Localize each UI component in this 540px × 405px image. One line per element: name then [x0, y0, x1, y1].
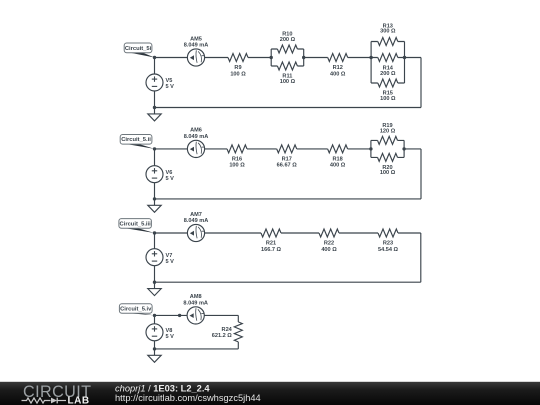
wire parallel box R10/R11	[271, 49, 304, 66]
svg-text:AM8: AM8	[190, 294, 202, 300]
wire	[247, 148, 277, 150]
wire	[420, 233, 422, 282]
node row3 input	[153, 231, 156, 234]
ground	[148, 349, 161, 362]
voltage source V8	[146, 324, 163, 341]
svg-text:100 Ω: 100 Ω	[230, 71, 246, 77]
resistor R14	[378, 54, 398, 62]
wire	[237, 315, 239, 322]
wire	[420, 149, 422, 199]
node row1 input	[153, 56, 156, 59]
label R19 120 Ω	[380, 123, 396, 134]
label AM8 8.049 mA	[183, 294, 208, 306]
wire parallel box R13/R14/R15	[371, 42, 404, 84]
wire	[155, 107, 422, 109]
ammeter AM6	[187, 140, 204, 157]
svg-text:100 Ω: 100 Ω	[280, 79, 296, 85]
net label flag Circuit_5.ii	[120, 135, 154, 149]
svg-text:R18: R18	[332, 156, 342, 162]
label R21 166.7 Ω	[261, 240, 282, 252]
wire	[420, 58, 422, 108]
svg-text:AM7: AM7	[190, 212, 202, 218]
resistor R22	[319, 229, 339, 237]
wire	[205, 232, 261, 234]
resistor R24	[234, 322, 242, 342]
label R23 54.54 Ω	[378, 240, 399, 252]
resistor R11	[277, 62, 297, 70]
wire parallel box R19/R20	[371, 140, 404, 157]
node row4 wire joint	[178, 314, 181, 317]
wire	[248, 57, 271, 59]
node R10/R11 right	[302, 56, 305, 59]
svg-text:5 V: 5 V	[166, 259, 175, 265]
wire	[237, 342, 239, 349]
svg-text:8.049 mA: 8.049 mA	[184, 43, 209, 49]
node row2 ground junction	[153, 197, 156, 200]
svg-text:Circuit_5.ii: Circuit_5.ii	[121, 137, 151, 143]
svg-text:120 Ω: 120 Ω	[380, 128, 396, 134]
label R12 400 Ω	[330, 65, 346, 77]
svg-text:100 Ω: 100 Ω	[380, 170, 396, 176]
svg-text:8.049 mA: 8.049 mA	[184, 218, 209, 224]
svg-text:V5: V5	[166, 78, 173, 84]
node row4 ground junction	[153, 347, 156, 350]
label R22 400 Ω	[321, 240, 337, 252]
wire	[348, 148, 371, 150]
net label flag Circuit_5i	[124, 43, 154, 58]
resistor R23	[378, 229, 398, 237]
svg-text:100 Ω: 100 Ω	[229, 163, 245, 169]
svg-text:66.67 Ω: 66.67 Ω	[277, 163, 298, 169]
label R20 100 Ω	[380, 165, 396, 176]
wire	[154, 266, 156, 283]
svg-text:choprj1 / 1E03: L2_2.4: choprj1 / 1E03: L2_2.4	[115, 383, 210, 393]
node R19/R20 right	[402, 147, 405, 150]
svg-text:400 Ω: 400 Ω	[330, 163, 346, 169]
wire	[405, 57, 422, 59]
svg-text:AM5: AM5	[190, 36, 202, 42]
wire	[304, 57, 328, 59]
label V5 5 V	[166, 78, 175, 90]
svg-text:R22: R22	[324, 240, 334, 246]
ammeter AM7	[187, 224, 204, 241]
svg-text:R23: R23	[383, 240, 393, 246]
label AM7 8.049 mA	[184, 212, 209, 224]
wire	[155, 148, 188, 150]
wire	[154, 341, 156, 349]
wire	[155, 281, 421, 283]
svg-text:400 Ω: 400 Ω	[330, 71, 346, 77]
resistor R10	[277, 45, 297, 53]
net label flag Circuit_5.iv	[119, 304, 154, 316]
label V8 5 V	[166, 328, 175, 340]
label R15 100 Ω	[380, 91, 396, 102]
wire	[281, 232, 319, 234]
node R13-15 right	[403, 56, 406, 59]
wire	[348, 57, 371, 59]
CircuitLab logo resistor squiggle	[22, 398, 51, 403]
voltage source V5	[146, 74, 163, 91]
node R10/R11 left	[270, 56, 273, 59]
resistor R15	[378, 79, 398, 87]
svg-text:5 V: 5 V	[166, 334, 175, 340]
ground	[148, 282, 161, 295]
svg-text:LAB: LAB	[68, 396, 90, 405]
resistor R16	[227, 145, 247, 153]
wire	[154, 91, 156, 108]
resistor R20	[378, 153, 398, 161]
wire	[404, 148, 421, 150]
label R13 300 Ω	[380, 23, 396, 34]
voltage source V7	[146, 249, 163, 266]
wire	[155, 57, 188, 59]
wire	[154, 315, 156, 323]
wire	[398, 232, 421, 234]
wire	[155, 232, 188, 234]
label R24 621.2 Ω	[212, 327, 233, 339]
resistor R9	[228, 54, 248, 62]
svg-text:5 V: 5 V	[166, 176, 175, 182]
label R17 66.67 Ω	[277, 156, 298, 168]
wire	[297, 148, 328, 150]
svg-text:R16: R16	[232, 156, 242, 162]
svg-text:R9: R9	[234, 65, 241, 71]
svg-text:Circuit_5.iii: Circuit_5.iii	[120, 221, 152, 227]
node row2 input	[153, 147, 156, 150]
net label flag Circuit_5.iii	[119, 219, 155, 233]
label R14 200 Ω	[380, 65, 396, 77]
wire	[154, 183, 156, 199]
resistor R18	[328, 145, 348, 153]
wire	[205, 57, 228, 59]
svg-text:400 Ω: 400 Ω	[321, 247, 337, 253]
svg-text:Circuit_5.iv: Circuit_5.iv	[120, 306, 152, 312]
wire	[339, 232, 378, 234]
wire	[154, 58, 156, 75]
ammeter AM5	[187, 49, 204, 66]
wire	[154, 233, 156, 249]
svg-text:V7: V7	[166, 253, 173, 259]
ammeter AM8	[187, 307, 204, 324]
label R11 100 Ω	[280, 74, 296, 85]
resistor R19	[378, 136, 398, 144]
svg-text:R17: R17	[282, 156, 292, 162]
wire	[155, 198, 422, 200]
label V7 5 V	[166, 253, 175, 265]
label R18 400 Ω	[330, 156, 346, 168]
resistor R12	[328, 54, 348, 62]
node R19/R20 left	[369, 147, 372, 150]
svg-text:8.049 mA: 8.049 mA	[183, 300, 208, 306]
node R13-15 left	[369, 56, 372, 59]
ground	[148, 199, 161, 212]
wire	[155, 314, 188, 316]
node row1 ground junction	[153, 106, 156, 109]
svg-text:166.7 Ω: 166.7 Ω	[261, 247, 282, 253]
svg-text:100 Ω: 100 Ω	[380, 96, 396, 102]
label AM6 8.049 mA	[184, 128, 209, 140]
node row3 ground junction	[153, 281, 156, 284]
label R10 200 Ω	[280, 32, 296, 43]
wire	[154, 149, 156, 166]
label V6 5 V	[166, 170, 175, 182]
CircuitLab logo diode	[51, 398, 66, 404]
node row4 input	[153, 314, 156, 317]
svg-text:5 V: 5 V	[166, 84, 175, 90]
resistor R21	[261, 229, 281, 237]
label R16 100 Ω	[229, 156, 245, 168]
svg-text:AM6: AM6	[190, 128, 202, 134]
svg-text:621.2 Ω: 621.2 Ω	[212, 333, 233, 339]
wire	[205, 148, 227, 150]
svg-text:Circuit_5i: Circuit_5i	[125, 46, 152, 52]
ground	[148, 108, 161, 121]
svg-text:V8: V8	[166, 328, 173, 334]
label AM5 8.049 mA	[184, 36, 209, 48]
wire	[204, 314, 238, 316]
svg-text:200 Ω: 200 Ω	[280, 37, 296, 43]
voltage source V6	[146, 166, 163, 183]
svg-text:8.049 mA: 8.049 mA	[184, 134, 209, 140]
resistor R17	[277, 145, 297, 153]
resistor R13	[378, 38, 398, 46]
svg-text:54.54 Ω: 54.54 Ω	[378, 247, 399, 253]
svg-text:200 Ω: 200 Ω	[380, 71, 396, 77]
wire	[155, 348, 239, 350]
svg-text:R12: R12	[333, 65, 343, 71]
svg-text:300 Ω: 300 Ω	[380, 29, 396, 35]
svg-text:http://circuitlab.com/cswhsgzc: http://circuitlab.com/cswhsgzc5jh44	[115, 393, 261, 403]
svg-text:V6: V6	[166, 170, 173, 176]
label R9 100 Ω	[230, 65, 246, 77]
svg-text:R21: R21	[266, 240, 276, 246]
